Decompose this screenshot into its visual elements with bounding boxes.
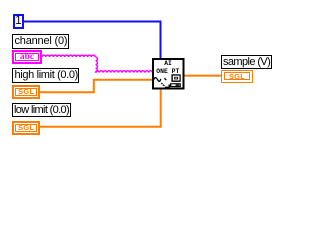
wire: blue device wire from constant 1 to AI ONE PT top	[24, 22, 161, 59]
icon dashed arrow	[161, 83, 163, 85]
terminal sample SGL indicator	[221, 70, 253, 83]
label low limit (0.0)	[12, 103, 71, 118]
wire: orange low limit	[40, 89, 161, 127]
svg-text:ONE PT: ONE PT	[156, 68, 179, 75]
wire: orange sample output	[184, 75, 221, 77]
wires layer	[0, 0, 285, 148]
constant 1	[13, 14, 24, 29]
terminal abc string control	[12, 50, 42, 64]
icon waveform	[153, 78, 161, 82]
label high limit (0.0)	[12, 68, 79, 83]
wire: orange high limit	[40, 80, 152, 93]
label channel (0)	[12, 34, 69, 49]
icon computer base	[170, 83, 181, 87]
wire: pink string channel squiggle	[42, 55, 153, 73]
label sample (V)	[221, 55, 272, 69]
terminal high limit SGL control	[12, 85, 40, 99]
svg-text:AI: AI	[164, 60, 172, 67]
terminal low limit SGL control	[12, 121, 40, 135]
icon computer monitor	[171, 74, 180, 82]
op: AI ONE PT VI icon box	[153, 59, 184, 89]
